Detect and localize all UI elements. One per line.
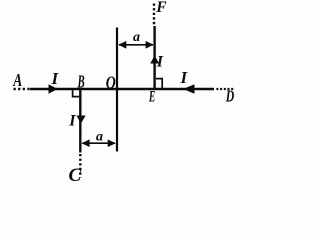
right angle mark at node B (73, 90, 80, 97)
axis vertical line through O (116, 28, 118, 152)
svg-text:D: D (225, 87, 234, 106)
wire BC vertical conductor (79, 88, 81, 153)
wire dotted continuation toward C (79, 154, 81, 178)
wire dotted continuation toward F (153, 4, 155, 27)
svg-text:C: C (69, 165, 82, 186)
dimension arrow a (bottom, between wire BC and axis) (82, 139, 116, 147)
right angle mark at node E (156, 79, 162, 88)
svg-text:O: O (106, 72, 116, 92)
svg-text:B: B (77, 72, 85, 92)
wire EF vertical conductor (153, 26, 155, 90)
current arrow I on wire EF (pointing up) (150, 56, 159, 64)
wire dotted continuation toward A (14, 88, 32, 90)
svg-text:a: a (133, 30, 140, 45)
current arrow I on wire BC (pointing down) (76, 116, 85, 124)
svg-text:E: E (148, 89, 155, 106)
svg-text:F: F (155, 0, 167, 16)
svg-text:a: a (96, 130, 103, 145)
wire AD main horizontal conductor (30, 88, 214, 90)
current arrow I on segment AB (pointing right) (49, 84, 58, 93)
svg-text:A: A (12, 70, 22, 90)
svg-text:I: I (68, 112, 76, 129)
current arrow I on segment DE (pointing left) (183, 84, 195, 93)
dimension arrow a (top, between axis and wire EF) (118, 41, 153, 49)
wire dotted continuation toward D (216, 88, 233, 90)
svg-text:I: I (156, 53, 164, 70)
